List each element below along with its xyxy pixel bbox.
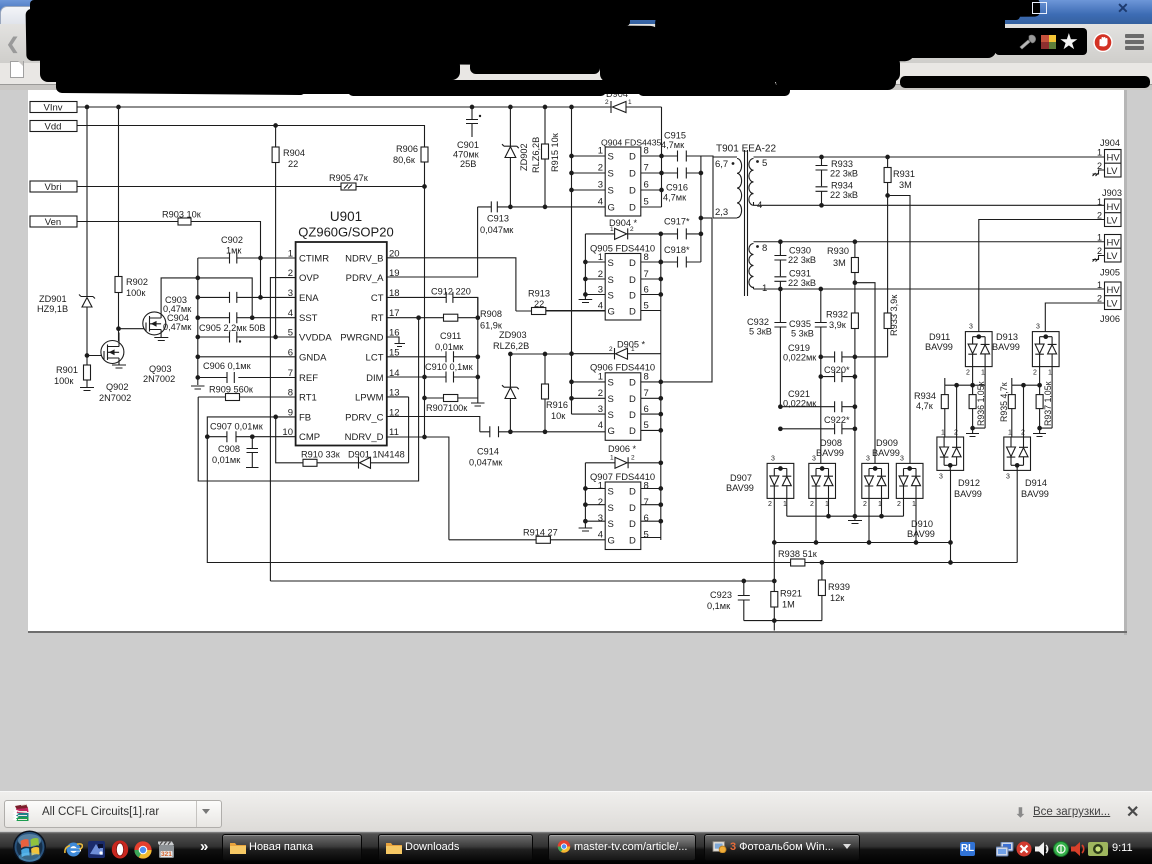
wire GNDA pin6 line	[198, 356, 296, 358]
wire J906 LV to D913	[1045, 303, 1104, 332]
svg-text:4,7мк: 4,7мк	[663, 193, 687, 203]
wire PWRGND pin16	[387, 337, 405, 347]
svg-text:R939: R939	[828, 582, 850, 592]
ground R936	[966, 428, 979, 436]
svg-text:5 3кВ: 5 3кВ	[791, 329, 814, 339]
svg-text:100к: 100к	[126, 288, 146, 298]
taskbar chevron	[200, 838, 208, 855]
svg-text:SST: SST	[299, 313, 318, 324]
svg-text:S: S	[608, 152, 614, 163]
tray language RL	[960, 842, 975, 856]
svg-text:3: 3	[771, 456, 775, 463]
svg-text:C906 0,1мк: C906 0,1мк	[203, 361, 252, 371]
zener ZD901	[37, 294, 95, 356]
wire decoupling bus	[197, 258, 199, 385]
diode D909 BAV99	[862, 438, 900, 508]
svg-text:22: 22	[534, 299, 544, 309]
node line R934/R936	[945, 378, 973, 385]
svg-text:R934: R934	[914, 391, 936, 401]
toolbar colored-squares icon	[1040, 34, 1057, 50]
svg-text:R914 27: R914 27	[523, 528, 558, 538]
svg-text:ZD903: ZD903	[499, 330, 527, 340]
svg-text:Vdd: Vdd	[45, 122, 62, 133]
svg-text:C918*: C918*	[664, 245, 690, 255]
svg-text:1: 1	[1097, 280, 1102, 290]
hamburger menu icon	[1125, 34, 1144, 38]
svg-text:R921: R921	[780, 589, 802, 599]
resistor R930 3M	[827, 240, 858, 285]
svg-text:D913: D913	[996, 332, 1018, 342]
task button 3 (active)	[548, 834, 696, 861]
capacitor C920*	[819, 365, 857, 382]
svg-text:C913: C913	[487, 214, 509, 224]
svg-text:HV: HV	[1107, 285, 1121, 296]
svg-text:Q902: Q902	[106, 382, 128, 392]
wire CT pin18 line	[387, 297, 478, 317]
capacitor C914	[469, 426, 503, 467]
svg-text:S: S	[608, 394, 614, 405]
diode D901 1N4148	[348, 450, 409, 469]
svg-text:ZD902: ZD902	[519, 143, 529, 171]
transistor Q903 2N7002	[143, 303, 175, 385]
diode D904	[605, 89, 662, 113]
svg-text:S: S	[608, 519, 614, 530]
svg-text:470мк: 470мк	[453, 150, 480, 160]
wire RT1-RT loop	[198, 318, 418, 481]
svg-text:22 3кВ: 22 3кВ	[830, 169, 858, 179]
svg-text:R935 4,7к: R935 4,7к	[999, 382, 1009, 422]
back arrow	[6, 34, 20, 50]
svg-text:R934: R934	[831, 181, 853, 191]
svg-text:2: 2	[863, 501, 867, 508]
svg-text:U901: U901	[330, 209, 362, 224]
capacitor C903	[163, 292, 237, 314]
svg-text:321: 321	[161, 851, 172, 858]
transistor Q904 FDS4435	[598, 138, 662, 217]
svg-text:J906: J906	[1100, 314, 1120, 324]
svg-text:3: 3	[598, 404, 603, 415]
tray nvidia icon	[1088, 842, 1108, 856]
tray blocked icon	[1016, 841, 1032, 857]
svg-text:BAV99: BAV99	[954, 489, 982, 499]
capacitor C906	[203, 361, 252, 383]
ground J904 LV	[1093, 170, 1105, 176]
svg-text:PWRGND: PWRGND	[340, 333, 383, 344]
svg-text:C920*: C920*	[824, 365, 850, 375]
svg-text:0,022мк: 0,022мк	[783, 353, 817, 363]
svg-text:2: 2	[810, 501, 814, 508]
node Vbri input box	[30, 181, 77, 193]
svg-text:1M: 1M	[782, 600, 795, 610]
wire D909 pin1 drop	[881, 498, 883, 516]
svg-text:4,7мк: 4,7мк	[661, 140, 685, 150]
svg-text:D: D	[629, 487, 636, 498]
svg-text:R909 560к: R909 560к	[209, 385, 254, 395]
transformer T901 secondary lower	[749, 242, 1105, 294]
quick launch Chrome icon	[134, 841, 152, 859]
wire D911 pin2 node	[973, 384, 986, 386]
svg-text:8: 8	[644, 372, 649, 383]
resistor R921 1M	[771, 543, 802, 623]
svg-text:7: 7	[644, 163, 649, 174]
svg-text:LV: LV	[1107, 251, 1119, 262]
wire D907 pin2 to sense rail	[773, 498, 775, 542]
svg-text:2: 2	[605, 99, 609, 106]
wire ground rail (pin1 returns)	[787, 498, 904, 516]
svg-text:C931: C931	[789, 269, 811, 279]
svg-text:6: 6	[288, 347, 293, 358]
svg-text:C915: C915	[664, 131, 686, 141]
svg-text:D: D	[629, 394, 636, 405]
svg-text:T901 EEA-22: T901 EEA-22	[716, 144, 776, 155]
transistor Q902 2N7002	[99, 333, 131, 404]
ground bus	[191, 386, 205, 389]
task button 4	[704, 834, 860, 861]
svg-text:5: 5	[644, 301, 649, 312]
svg-text:CT: CT	[371, 293, 384, 304]
capacitor C918*	[659, 245, 701, 268]
wire VVDDA pin5 line	[198, 336, 296, 338]
svg-text:D: D	[629, 186, 636, 197]
svg-text:R913: R913	[528, 289, 550, 299]
wire J903 LV to D911	[979, 220, 1105, 332]
svg-text:Q907 FDS4410: Q907 FDS4410	[590, 471, 655, 482]
ground Q905 sources	[579, 300, 593, 303]
svg-text:8: 8	[644, 252, 649, 263]
svg-text:C911: C911	[440, 331, 461, 341]
transformer T901 secondary upper	[749, 157, 1105, 211]
svg-text:0,047мк: 0,047мк	[469, 458, 503, 468]
svg-text:D908: D908	[820, 438, 842, 448]
svg-text:1: 1	[631, 346, 635, 353]
connector J904	[1097, 138, 1121, 177]
svg-text:C923: C923	[710, 590, 732, 600]
capacitor C904	[163, 312, 237, 332]
svg-text:3: 3	[969, 324, 973, 331]
wire PDRV_A pin19 to C913	[387, 207, 605, 277]
svg-text:GNDA: GNDA	[299, 352, 327, 363]
quick launch app icon	[88, 841, 105, 858]
svg-text:2: 2	[1097, 246, 1102, 256]
svg-text:C930: C930	[789, 246, 811, 256]
svg-text:1: 1	[598, 252, 603, 263]
bookmark page icon	[10, 61, 24, 78]
svg-text:R907100к: R907100к	[426, 403, 468, 413]
svg-text:RLZ6,2B: RLZ6,2B	[531, 137, 541, 173]
wire D909 pin2 to sense rail	[868, 498, 870, 542]
wire D910 pin2 to ground rail	[903, 498, 905, 516]
wire Q907 source bus	[585, 463, 605, 528]
svg-text:1: 1	[288, 249, 293, 260]
wire R906 to NDRV_D line	[424, 162, 426, 437]
svg-text:R910 33к: R910 33к	[301, 450, 341, 460]
capacitor C901	[453, 105, 481, 169]
capacitor C930	[774, 240, 816, 276]
svg-text:0,1мк: 0,1мк	[707, 601, 731, 611]
svg-text:5 3кВ: 5 3кВ	[749, 327, 772, 337]
diode D913 BAV99	[992, 324, 1059, 377]
wire common drain bus	[641, 234, 661, 540]
capacitor R933 22 3kV	[816, 155, 859, 186]
wire Q904 drain bus	[641, 107, 662, 207]
svg-text:RT: RT	[371, 313, 384, 324]
toolbar star icon	[1059, 29, 1079, 55]
svg-text:1: 1	[1097, 233, 1102, 243]
svg-text:R906: R906	[396, 144, 418, 154]
svg-text:1: 1	[1048, 370, 1052, 377]
svg-text:6: 6	[644, 513, 649, 524]
svg-text:11: 11	[389, 427, 399, 438]
svg-text:D912: D912	[958, 478, 980, 488]
svg-text:7: 7	[644, 388, 649, 399]
capacitor C921	[779, 389, 857, 412]
svg-text:2: 2	[1097, 294, 1102, 304]
svg-text:5: 5	[644, 530, 649, 541]
svg-text:CMP: CMP	[299, 432, 320, 443]
start orb	[10, 830, 49, 864]
transformer T901 core	[745, 150, 748, 296]
svg-text:DIM: DIM	[366, 373, 384, 384]
wire ENA pin3 line	[198, 296, 296, 298]
diode D912 BAV99	[937, 430, 982, 500]
wire sense line from FB node to R938	[207, 437, 790, 563]
resistor R902	[115, 277, 148, 342]
svg-text:PDRV_A: PDRV_A	[346, 273, 385, 284]
svg-text:2: 2	[1033, 370, 1037, 377]
wire R930 to D909 pin3	[855, 283, 875, 464]
svg-text:S: S	[608, 169, 614, 180]
svg-text:1: 1	[598, 481, 603, 492]
wire RT bus vertical	[477, 297, 479, 402]
svg-text:61,9к: 61,9к	[480, 321, 503, 331]
svg-text:0,022мк: 0,022мк	[783, 399, 817, 409]
svg-text:C912 220: C912 220	[431, 287, 471, 297]
svg-text:2: 2	[598, 269, 603, 280]
task button 1	[222, 834, 362, 861]
svg-text:QZ960G/SOP20: QZ960G/SOP20	[298, 225, 393, 240]
wire Q903 gate	[119, 328, 147, 330]
svg-text:C914: C914	[477, 447, 499, 457]
svg-text:2: 2	[598, 388, 603, 399]
wire NDRV_D pin11 to R914	[387, 437, 605, 540]
wire SST pin4 line	[198, 317, 296, 319]
svg-text:LPWM: LPWM	[355, 393, 384, 404]
svg-text:R933: R933	[831, 159, 853, 169]
resistor R901	[54, 356, 91, 388]
capacitor C919	[783, 343, 888, 363]
svg-text:CTIMR: CTIMR	[299, 254, 329, 265]
wire D908 pin1 drop	[828, 498, 830, 516]
wire LCT pin15 line	[387, 356, 478, 358]
svg-text:R937 1,05к: R937 1,05к	[1043, 381, 1053, 426]
svg-text:C935: C935	[789, 319, 811, 329]
page	[1124, 90, 1127, 635]
ground rail symbol	[848, 516, 862, 523]
svg-text:C922*: C922*	[824, 415, 850, 425]
svg-text:R916: R916	[546, 400, 568, 410]
diode D910 BAV99	[896, 456, 935, 540]
resistor R937 1,05k	[1036, 381, 1053, 429]
svg-text:NDRV_B: NDRV_B	[345, 254, 383, 265]
taskbar	[0, 832, 1152, 864]
svg-text:LCT: LCT	[366, 352, 384, 363]
node Vdd input box	[30, 121, 77, 133]
wire bottom return	[744, 621, 822, 631]
svg-text:3: 3	[866, 456, 870, 463]
resistor R903	[162, 210, 202, 226]
wire D911 pin1 down	[973, 367, 986, 429]
node Ven input box	[30, 216, 77, 228]
svg-text:80,6к: 80,6к	[393, 155, 416, 165]
svg-text:R905 47к: R905 47к	[329, 173, 369, 183]
svg-text:0,01мк: 0,01мк	[212, 455, 241, 465]
resistor R935 4,7k	[999, 382, 1015, 437]
svg-text:1: 1	[610, 455, 614, 462]
svg-text:HV: HV	[1107, 153, 1121, 164]
svg-text:R936 1,05к: R936 1,05к	[976, 381, 986, 426]
svg-text:C916: C916	[666, 183, 688, 193]
svg-text:3: 3	[288, 288, 293, 299]
tray speaker icon	[1034, 841, 1051, 857]
wire D913 pin1 down	[1040, 367, 1053, 429]
svg-text:C908: C908	[218, 444, 240, 454]
svg-text:0,01мк: 0,01мк	[435, 342, 464, 352]
svg-text:R904: R904	[283, 148, 305, 158]
svg-text:BAV99: BAV99	[1021, 489, 1049, 499]
svg-text:1: 1	[981, 370, 985, 377]
svg-text:G: G	[608, 307, 615, 318]
quick launch Opera icon	[111, 840, 129, 859]
resistor R914	[523, 528, 558, 544]
svg-text:1: 1	[610, 226, 614, 233]
svg-text:C910 0,1мк: C910 0,1мк	[425, 362, 474, 372]
svg-text:4: 4	[757, 200, 762, 211]
diode D908 BAV99	[809, 438, 844, 508]
svg-text:D: D	[629, 536, 636, 547]
node VInv input box	[30, 102, 77, 114]
svg-text:10к: 10к	[551, 411, 566, 421]
svg-text:S: S	[608, 275, 614, 286]
svg-text:3: 3	[598, 285, 603, 296]
browser tab	[0, 6, 98, 26]
svg-text:C902: C902	[221, 235, 243, 245]
svg-text:4: 4	[598, 197, 603, 208]
svg-text:22 3кВ: 22 3кВ	[788, 255, 816, 265]
svg-text:6: 6	[644, 180, 649, 191]
resistor R913	[528, 289, 550, 315]
svg-text:FB: FB	[299, 412, 311, 423]
svg-text:6,7: 6,7	[715, 159, 728, 170]
svg-text:D906 *: D906 *	[608, 444, 637, 454]
wire Q905 gate stub	[546, 310, 605, 312]
svg-text:BAV99: BAV99	[925, 342, 953, 352]
wire OVP feedback line	[270, 580, 774, 582]
svg-text:NDRV_D: NDRV_D	[345, 432, 384, 443]
svg-text:100к: 100к	[54, 376, 74, 386]
svg-text:Q904 FDS4435: Q904 FDS4435	[601, 138, 662, 148]
capacitor C913	[480, 201, 514, 235]
svg-text:R933 3,9к: R933 3,9к	[889, 294, 899, 336]
transformer T901 EEA-22 primary	[713, 144, 776, 219]
transistor Q905 FDS4410	[590, 243, 655, 321]
svg-text:3,9к: 3,9к	[829, 320, 847, 330]
svg-text:1: 1	[598, 372, 603, 383]
resistor R907	[425, 395, 478, 414]
svg-text:2: 2	[768, 501, 772, 508]
svg-text:2N7002: 2N7002	[143, 374, 175, 384]
svg-text:0,47мк: 0,47мк	[163, 322, 192, 332]
wire node to D914 pin2	[1023, 385, 1025, 437]
svg-text:4,7к: 4,7к	[916, 401, 934, 411]
svg-text:D: D	[629, 169, 636, 180]
svg-text:2: 2	[598, 163, 603, 174]
resistor R938 51k	[778, 549, 1017, 566]
svg-text:BAV99: BAV99	[872, 448, 900, 458]
quick launch media player icon	[158, 841, 175, 859]
wire LPWM pin13	[387, 397, 409, 463]
ground R937	[1033, 428, 1046, 436]
capacitor C917*	[661, 217, 701, 240]
capacitor C931	[774, 269, 816, 291]
svg-text:RT1: RT1	[299, 393, 317, 404]
svg-text:1мк: 1мк	[226, 246, 242, 256]
capacitor C935 5 3kV	[789, 287, 827, 463]
capacitor C923	[707, 581, 750, 621]
svg-text:D: D	[629, 426, 636, 437]
wire CMP pin10 line	[207, 436, 295, 438]
toolbar wrench icon	[1018, 33, 1039, 50]
svg-text:R903 10к: R903 10к	[162, 210, 202, 220]
svg-text:1: 1	[1097, 148, 1102, 158]
wire D910 pin1 to sense rail	[915, 498, 917, 542]
wire DIM pin14 line	[387, 376, 478, 378]
svg-text:S: S	[608, 410, 614, 421]
svg-text:S: S	[608, 186, 614, 197]
svg-text:ZD901: ZD901	[39, 294, 67, 304]
wire ZD903/R916 top line	[510, 353, 571, 355]
diode D906*	[585, 444, 660, 468]
svg-text:R938 51к: R938 51к	[778, 549, 818, 559]
capacitor C915	[661, 131, 713, 162]
svg-text:2N7002: 2N7002	[99, 393, 131, 403]
node line R935/R937	[1012, 378, 1040, 385]
svg-text:OVP: OVP	[299, 273, 319, 284]
resistor R906	[393, 144, 428, 165]
wire VInv rail	[77, 106, 611, 108]
svg-text:22 3кВ: 22 3кВ	[788, 278, 816, 288]
svg-text:J904: J904	[1100, 138, 1120, 148]
svg-text:3: 3	[1006, 474, 1010, 481]
diode D905*	[572, 340, 661, 360]
tray red speaker icon	[1070, 841, 1087, 857]
svg-text:12к: 12к	[830, 593, 845, 603]
svg-text:5: 5	[762, 158, 767, 169]
svg-text:BAV99: BAV99	[907, 529, 935, 539]
capacitor R934 22 3kV	[816, 181, 859, 208]
svg-text:8: 8	[762, 243, 767, 254]
svg-text:D: D	[629, 275, 636, 286]
svg-text:7: 7	[644, 497, 649, 508]
svg-text:J905: J905	[1100, 268, 1120, 278]
stop hand icon	[1092, 33, 1114, 52]
svg-text:J903: J903	[1102, 188, 1122, 198]
resistor R934 4,7k	[914, 385, 948, 437]
svg-text:D: D	[629, 152, 636, 163]
svg-text:ENA: ENA	[299, 293, 319, 304]
wire D912 pin3 down	[950, 470, 952, 542]
wire coupling node vertical	[700, 156, 702, 262]
svg-text:5: 5	[288, 328, 293, 339]
